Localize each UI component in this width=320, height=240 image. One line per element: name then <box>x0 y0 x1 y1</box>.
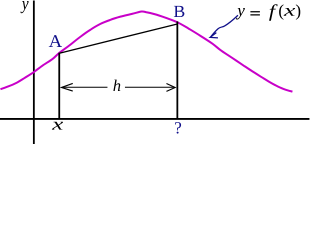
point label A <box>49 35 62 47</box>
label x of y = f(x) <box>284 8 295 16</box>
x-axis label x <box>52 122 63 130</box>
vertical line at x (below A) <box>58 53 60 119</box>
point label B <box>174 6 185 17</box>
y-axis label y <box>21 1 29 13</box>
h label <box>113 80 120 91</box>
x-axis <box>0 118 309 120</box>
x-axis label ? <box>175 122 181 134</box>
annotation arrowhead <box>210 33 218 38</box>
vertical line at x+h (below B) <box>176 21 178 119</box>
h arrow shaft left segment <box>62 86 107 88</box>
label ) of y = f(x) <box>296 4 300 19</box>
curve y=f(x) <box>0 11 292 91</box>
y-axis <box>33 0 35 144</box>
label y of y = f(x) <box>236 8 245 20</box>
label ( of y = f(x) <box>279 4 283 19</box>
h arrow shaft right segment <box>125 86 175 88</box>
h arrow right head <box>166 84 175 92</box>
label = of y = f(x) <box>250 12 260 15</box>
h arrow left head <box>61 83 72 91</box>
label f of y = f(x) <box>269 4 278 21</box>
secant line AB <box>59 24 177 53</box>
annotation arrow to curve <box>210 15 238 37</box>
